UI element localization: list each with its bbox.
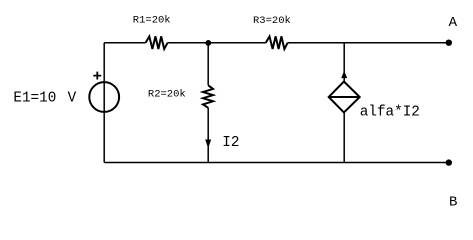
svg-text:V: V [68, 91, 77, 107]
svg-text:alfa*I2: alfa*I2 [360, 105, 420, 121]
svg-text:B: B [449, 195, 457, 211]
svg-text:I2: I2 [222, 135, 239, 151]
svg-text:E1=10: E1=10 [13, 91, 56, 107]
svg-text:R3=20k: R3=20k [253, 15, 291, 27]
svg-text:R1=20k: R1=20k [133, 15, 171, 27]
svg-text:A: A [449, 15, 458, 31]
svg-text:R2=20k: R2=20k [148, 88, 186, 100]
